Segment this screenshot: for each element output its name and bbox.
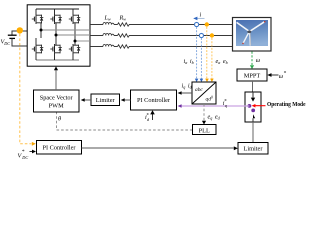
wire id* reference bbox=[150, 110, 155, 120]
svg-text:Limiter: Limiter bbox=[96, 97, 116, 104]
wire theta (dashed) bbox=[57, 113, 193, 131]
current arrow i bbox=[193, 17, 204, 21]
wire omega (green dashed) bbox=[250, 52, 254, 70]
svg-text:DC: DC bbox=[21, 155, 28, 160]
svg-text:PWM: PWM bbox=[49, 103, 64, 110]
inverter bridge box bbox=[27, 5, 90, 66]
svg-text:θ: θ bbox=[58, 116, 61, 123]
wire eb measurement (orange dashed) bbox=[210, 38, 214, 82]
current sensor ia (blue) bbox=[195, 22, 199, 26]
switch operating-mode selector bbox=[245, 92, 261, 122]
IGBT S6 bbox=[69, 41, 81, 60]
node eb (orange) bbox=[210, 33, 214, 37]
inductor Lb bbox=[103, 33, 114, 35]
operating mode arrow (red) bbox=[252, 104, 266, 108]
wire Vdc measured (orange dashed) bbox=[20, 34, 36, 146]
resistor Rb bbox=[118, 34, 130, 37]
block PI Controller (DC voltage) bbox=[37, 141, 82, 155]
top DC rail bbox=[36, 8, 79, 10]
phase bus B bbox=[55, 34, 91, 37]
inductor Lc bbox=[103, 44, 114, 46]
svg-text:q: q bbox=[225, 103, 227, 108]
svg-text:PI Controller: PI Controller bbox=[137, 97, 171, 104]
inductor La bbox=[103, 22, 114, 24]
wire phase a bbox=[90, 24, 233, 26]
IGBT S1 bbox=[32, 9, 44, 30]
bottom DC rail bbox=[36, 59, 79, 61]
block Space Vector PWM bbox=[34, 90, 80, 112]
IGBT S3 bbox=[69, 9, 81, 41]
resistor Ra bbox=[118, 23, 130, 26]
wire ia measurement (blue dashed) bbox=[195, 27, 199, 82]
svg-text:*: * bbox=[284, 71, 287, 77]
wire switch to limiter2 bbox=[252, 122, 254, 143]
svg-text:PLL: PLL bbox=[199, 127, 210, 134]
wire phase c bbox=[90, 46, 233, 48]
node switch upper (purple) bbox=[248, 104, 252, 108]
wire MPPT to switch bbox=[252, 81, 254, 92]
svg-text:MPPT: MPPT bbox=[244, 72, 261, 79]
wire iq id to PI bbox=[178, 91, 192, 95]
svg-text:Limiter: Limiter bbox=[244, 145, 264, 152]
IGBT S2 bbox=[50, 9, 62, 35]
wire ib measurement (blue dashed) bbox=[200, 38, 204, 82]
block Limiter 2 bbox=[238, 143, 268, 155]
block abc/qd transform bbox=[192, 82, 216, 104]
node ea (orange) bbox=[205, 22, 209, 26]
svg-text:Space Vector: Space Vector bbox=[40, 95, 74, 102]
block Limiter (middle) bbox=[91, 94, 120, 106]
node DC+ (orange) bbox=[17, 27, 23, 33]
DC source V_DC (capacitor) bbox=[8, 31, 28, 46]
phase bus C bbox=[74, 40, 91, 43]
wire Limiter to SVPWM bbox=[81, 98, 91, 102]
wire Vdc* reference bbox=[30, 150, 37, 154]
node switch lower (purple) bbox=[251, 109, 255, 113]
wind turbine WT bbox=[233, 18, 272, 52]
block PLL bbox=[193, 125, 217, 135]
wire ea measurement (orange dashed) bbox=[205, 27, 209, 82]
block PI Controller (current) bbox=[131, 90, 177, 110]
wire gate signals to inverter bbox=[54, 66, 58, 90]
svg-text:ω: ω bbox=[256, 57, 261, 64]
IGBT S5 bbox=[50, 35, 62, 60]
wire PI to Limiter bbox=[121, 98, 131, 102]
wire PI2 to Limiter2 bbox=[82, 146, 238, 150]
svg-text:i: i bbox=[200, 12, 202, 19]
phase bus A bbox=[40, 29, 91, 32]
svg-text:abc: abc bbox=[195, 87, 203, 93]
current sensor ib (blue) bbox=[199, 33, 203, 37]
wire eq ed to PLL (dashed) bbox=[202, 104, 206, 125]
block MPPT bbox=[237, 69, 267, 81]
svg-text:PI Controller: PI Controller bbox=[42, 145, 76, 152]
wire omega* bbox=[267, 73, 278, 77]
IGBT S4 bbox=[32, 30, 44, 60]
resistor Rc bbox=[118, 45, 130, 48]
wire phase b bbox=[90, 35, 233, 37]
svg-text:Operating Mode: Operating Mode bbox=[267, 101, 306, 108]
wire iq* reference (purple) bbox=[178, 104, 250, 108]
